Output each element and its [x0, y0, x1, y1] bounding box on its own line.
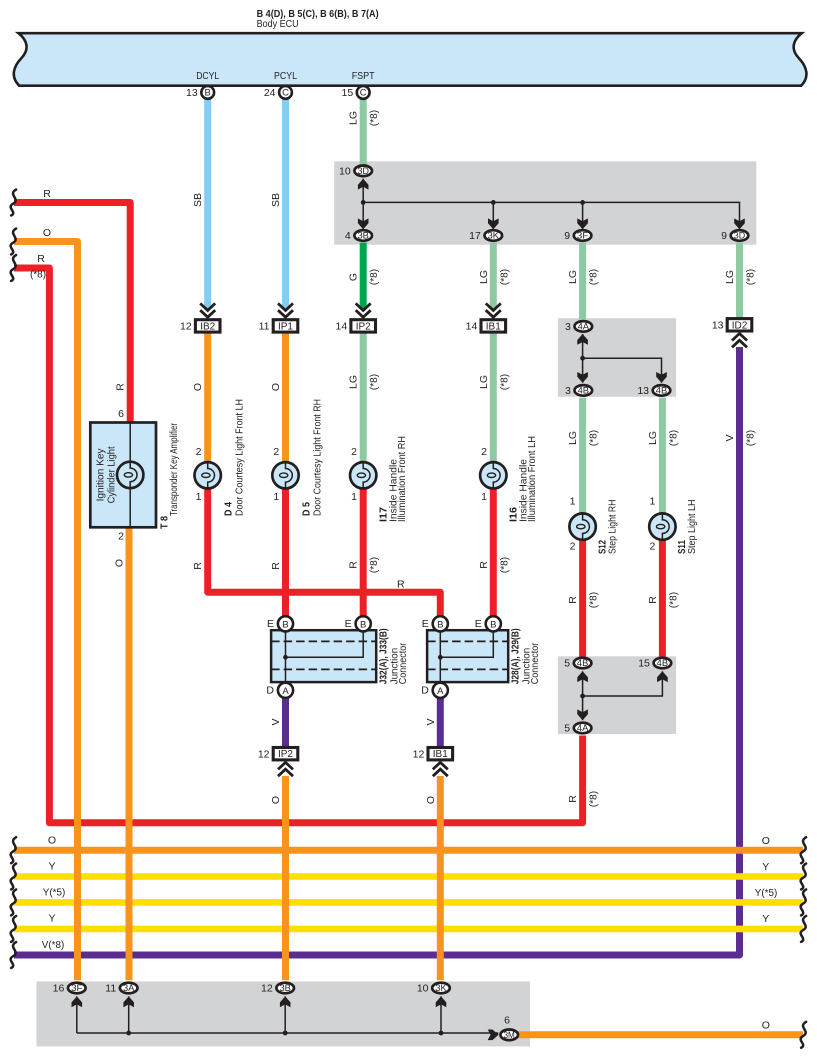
- wire G darkgreen: 4(3B) to IP2: [360, 243, 367, 309]
- wire LG green: IB1 to I16 pin2: [490, 333, 497, 463]
- arrow up into 16(3F): [72, 996, 83, 1007]
- svg-text:V(*8): V(*8): [42, 940, 65, 951]
- svg-text:LG: LG: [724, 270, 736, 284]
- svg-text:LG: LG: [478, 270, 490, 284]
- svg-text:V: V: [425, 718, 437, 725]
- J32 pin E(B) left: [267, 616, 293, 631]
- svg-text:10: 10: [339, 165, 351, 177]
- svg-text:3M: 3M: [504, 1030, 515, 1040]
- svg-text:ID2: ID2: [732, 320, 748, 331]
- connector 17(3K): [469, 230, 502, 242]
- svg-text:9: 9: [564, 230, 570, 242]
- lamp I16 Inside Handle Illumination Front LH: [480, 462, 506, 488]
- connector 5(4B): [564, 658, 591, 670]
- svg-text:3B: 3B: [280, 983, 292, 993]
- svg-text:Step Light RH: Step Light RH: [606, 500, 618, 555]
- svg-text:E: E: [345, 618, 352, 630]
- T8 internal bulb: ignition key cylinder light: [117, 462, 143, 488]
- wire O orange: IB1 down to 10(3K): [437, 776, 444, 980]
- svg-text:O: O: [762, 835, 770, 847]
- lamp I17 Inside Handle Illumination Front RH: [350, 462, 376, 488]
- svg-text:IB1: IB1: [486, 321, 501, 332]
- svg-text:2: 2: [118, 531, 124, 543]
- svg-text:Y: Y: [48, 861, 55, 873]
- svg-text:G: G: [348, 273, 360, 281]
- svg-text:12: 12: [258, 748, 270, 760]
- connector 12 IB1 lower: [413, 748, 453, 761]
- svg-text:(*8): (*8): [668, 430, 679, 446]
- svg-text:14: 14: [336, 321, 348, 333]
- J28 pin E(B) right: [475, 616, 501, 631]
- lamp S12 Step Light RH: [569, 513, 595, 539]
- wire O orange: left break down to 16(3F): [14, 242, 78, 981]
- svg-text:R: R: [270, 562, 282, 570]
- junction connector J28(A),J29(B) box: [427, 630, 508, 682]
- svg-text:1: 1: [570, 496, 576, 508]
- break symbol Y bus left: [11, 864, 16, 890]
- svg-text:Y: Y: [762, 913, 769, 925]
- arrow down into 9(3F): [577, 218, 588, 229]
- svg-text:O: O: [43, 227, 51, 239]
- chevron into IB1 lower: [433, 762, 448, 776]
- arrow down into 4(3B): [358, 218, 369, 229]
- svg-text:5: 5: [564, 658, 570, 670]
- svg-text:B: B: [282, 619, 288, 630]
- svg-text:5: 5: [564, 723, 570, 735]
- svg-text:R: R: [348, 561, 360, 569]
- svg-text:D: D: [266, 685, 274, 697]
- chevron into IB2: [200, 303, 215, 317]
- svg-text:Ignition Key: Ignition Key: [95, 448, 106, 501]
- svg-text:B: B: [205, 88, 211, 99]
- svg-text:C: C: [282, 88, 289, 99]
- chevron into IP2 lower: [278, 762, 293, 776]
- connector 10(3D): [339, 165, 372, 177]
- svg-text:1: 1: [481, 491, 487, 503]
- chevron into IB1: [486, 303, 501, 317]
- svg-text:3D: 3D: [358, 166, 369, 176]
- svg-text:Door Courtesy Light Front LH: Door Courtesy Light Front LH: [234, 399, 246, 516]
- break symbol R left: [11, 190, 16, 216]
- svg-text:R: R: [478, 561, 490, 569]
- wire O orange: T8 pin2 down to 11(3A): [126, 527, 133, 980]
- svg-text:(*8): (*8): [369, 269, 380, 285]
- svg-text:3: 3: [565, 321, 571, 333]
- connector 12 IP2 lower: [258, 748, 298, 761]
- svg-text:LG: LG: [478, 375, 490, 389]
- Body ECU band: [14, 33, 807, 85]
- svg-text:LG: LG: [348, 375, 360, 389]
- svg-text:V: V: [270, 718, 282, 725]
- wire R red: left break to T8 pin 6: [14, 203, 130, 423]
- svg-text:O: O: [192, 383, 204, 391]
- wire SB skyblue: DCYL to IB2: [204, 99, 211, 309]
- svg-text:R: R: [192, 562, 204, 570]
- svg-text:Illumination Front RH: Illumination Front RH: [396, 436, 408, 522]
- connector 12 IB2: [180, 320, 220, 333]
- arrow up into 11(3A): [123, 996, 134, 1007]
- svg-text:2: 2: [570, 541, 576, 553]
- rail in top shield box: [363, 179, 739, 229]
- svg-text:(*8): (*8): [589, 592, 600, 608]
- break symbol Y bus 2 left: [11, 916, 16, 942]
- svg-text:3K: 3K: [488, 231, 500, 241]
- svg-text:LG: LG: [567, 431, 579, 445]
- svg-text:1: 1: [273, 491, 279, 503]
- svg-text:1: 1: [649, 496, 655, 508]
- lamp D5 Door Courtesy Light Front RH: [272, 462, 298, 488]
- svg-text:SB: SB: [270, 193, 282, 207]
- svg-text:E: E: [475, 618, 482, 630]
- svg-text:T 8: T 8: [159, 516, 171, 529]
- break symbol Y(*5) bus left: [11, 889, 16, 915]
- svg-text:Connector: Connector: [529, 642, 541, 684]
- break symbol O bus right: [801, 837, 806, 863]
- svg-text:(*8): (*8): [30, 270, 46, 281]
- lamp D4 Door Courtesy Light Front LH: [195, 462, 221, 488]
- svg-text:O: O: [425, 796, 437, 804]
- break symbol O bus left: [11, 837, 16, 863]
- svg-text:(*8): (*8): [589, 269, 600, 285]
- junction dots on top rail: [361, 200, 366, 205]
- wire R red: D4 pin1 to J28 E(B): [208, 488, 441, 615]
- svg-text:LG: LG: [647, 431, 659, 445]
- svg-text:11: 11: [105, 983, 116, 995]
- svg-text:O: O: [762, 1020, 770, 1032]
- svg-text:E: E: [422, 618, 429, 630]
- svg-text:DCYL: DCYL: [196, 71, 219, 82]
- connector 10(3K): [417, 983, 450, 995]
- svg-text:3D: 3D: [734, 231, 745, 241]
- wire LG green: FSPT to 10(3D): [360, 99, 367, 164]
- svg-text:R: R: [397, 579, 405, 591]
- bus Y yellow 1: [14, 873, 803, 880]
- svg-text:3K: 3K: [435, 983, 447, 993]
- arrow up into 10(3D): [358, 179, 369, 190]
- svg-text:3F: 3F: [577, 231, 589, 241]
- wire SB skyblue: PCYL to IP1: [282, 99, 289, 309]
- svg-text:D: D: [421, 685, 429, 697]
- bus Y yellow 2: [14, 926, 803, 933]
- connector 15(4B): [638, 658, 671, 670]
- connector 11(3A): [105, 983, 137, 995]
- svg-text:4B: 4B: [657, 658, 669, 668]
- svg-text:24: 24: [264, 87, 276, 99]
- svg-text:B: B: [437, 619, 443, 630]
- svg-text:1: 1: [351, 491, 357, 503]
- svg-text:2: 2: [351, 446, 357, 458]
- pin 13(B) DCYL: [186, 86, 214, 99]
- arrow up into 12(3B): [280, 996, 291, 1007]
- wire V violet: ID2 down to V(*8) bus: [14, 347, 740, 955]
- wire O orange: 3M to right break: [518, 1031, 804, 1038]
- svg-text:13: 13: [712, 319, 724, 331]
- svg-text:IB2: IB2: [200, 321, 215, 332]
- svg-text:IP1: IP1: [278, 321, 293, 332]
- svg-text:FSPT: FSPT: [352, 71, 375, 82]
- svg-text:B: B: [360, 619, 366, 630]
- svg-text:2: 2: [273, 446, 279, 458]
- svg-text:Illumination Front LH: Illumination Front LH: [526, 436, 538, 522]
- wire R(*8) red: left break via bottom rail up to 5(4A): [14, 268, 583, 823]
- connector 3(4B): [565, 385, 592, 397]
- connector 16(3F): [53, 983, 86, 995]
- svg-text:Connector: Connector: [397, 642, 409, 684]
- svg-text:13: 13: [637, 385, 649, 397]
- wire LG green: 17(3K) to IB1: [490, 243, 497, 309]
- arrow down into 17(3K): [488, 218, 499, 229]
- wire R(*8) red: I16 pin1 to J28 E(B) right: [490, 488, 497, 615]
- svg-text:V: V: [724, 434, 736, 441]
- svg-text:1: 1: [196, 491, 202, 503]
- svg-text:12: 12: [261, 983, 273, 995]
- arrow right into 6(3M): [488, 1030, 499, 1041]
- svg-text:(*8): (*8): [589, 430, 600, 446]
- svg-text:R: R: [37, 253, 45, 265]
- svg-text:14: 14: [466, 321, 478, 333]
- connector 13 ID2: [712, 319, 752, 332]
- svg-text:R: R: [43, 188, 51, 200]
- connector 9(3D): [721, 230, 748, 242]
- break symbol O 3M right: [801, 1022, 806, 1048]
- svg-text:4: 4: [345, 230, 351, 242]
- connector 11 IP1: [259, 320, 298, 333]
- break symbol Y bus 2 right: [801, 916, 806, 942]
- svg-text:LG: LG: [348, 111, 360, 125]
- svg-text:(*8): (*8): [499, 269, 510, 285]
- arrow up into 10(3K): [436, 996, 447, 1007]
- connector 14 IP2: [336, 320, 376, 333]
- svg-text:3: 3: [565, 385, 571, 397]
- svg-text:R: R: [567, 596, 579, 604]
- svg-text:3B: 3B: [358, 231, 370, 241]
- pin 15(C) FSPT: [342, 86, 370, 99]
- component T8 Transponder Key Amplifier box: [90, 423, 156, 528]
- svg-text:O: O: [270, 383, 282, 391]
- wire V violet: J32 D(A) to IP2: [282, 699, 289, 747]
- svg-text:2: 2: [481, 446, 487, 458]
- svg-text:Y: Y: [762, 861, 769, 873]
- svg-text:(*8): (*8): [746, 269, 757, 285]
- svg-text:Y(*5): Y(*5): [43, 888, 66, 899]
- svg-text:R: R: [115, 383, 127, 391]
- svg-text:SB: SB: [192, 193, 204, 207]
- svg-text:6: 6: [118, 408, 124, 420]
- svg-text:Body ECU: Body ECU: [257, 19, 299, 30]
- wire V violet: J28 D(A) to IB1: [437, 699, 444, 747]
- wire O orange: IB2 to D4 pin2: [204, 333, 211, 463]
- svg-text:IP2: IP2: [278, 749, 293, 760]
- svg-text:O: O: [270, 796, 282, 804]
- svg-text:2: 2: [649, 541, 655, 553]
- svg-text:4A: 4A: [578, 322, 590, 332]
- wire LG green: 13(4B) to S11 pin1: [659, 398, 666, 514]
- svg-text:9: 9: [721, 230, 727, 242]
- svg-text:R: R: [567, 795, 579, 803]
- arrow up into 5(4B): [577, 671, 588, 682]
- J28 pin D(A): [421, 683, 448, 698]
- svg-text:11: 11: [259, 321, 270, 333]
- lamp S11 Step Light LH: [649, 513, 675, 539]
- svg-text:Y(*5): Y(*5): [755, 888, 778, 899]
- shield box: 4A/4B junction rail upper: [558, 318, 676, 397]
- junction connector J32(A),J33(B) box: [271, 630, 376, 682]
- svg-text:A: A: [282, 686, 289, 697]
- connector 4(3B): [345, 230, 372, 242]
- svg-text:Door Courtesy Light Front RH: Door Courtesy Light Front RH: [312, 399, 324, 516]
- connector 6(3M): [500, 1030, 518, 1041]
- svg-text:(*8): (*8): [668, 592, 679, 608]
- svg-text:3F: 3F: [71, 983, 83, 993]
- wire R(*8) red: I17 pin1 to J32 E(B) right: [360, 488, 367, 615]
- svg-text:12: 12: [413, 748, 425, 760]
- svg-text:A: A: [437, 686, 444, 697]
- svg-text:15: 15: [342, 87, 354, 99]
- wire R(*8) red: S12 pin2 to 5(4B): [579, 540, 586, 657]
- arrow down into 5(4A): [577, 709, 588, 720]
- arrow down into 13(4B): [656, 372, 667, 383]
- break symbol V bus left: [11, 942, 16, 968]
- svg-text:LG: LG: [567, 270, 579, 284]
- svg-text:O: O: [48, 835, 56, 847]
- wire O orange: IP2 down to 12(3B): [282, 776, 289, 980]
- wire LG green: IP2 to I17 pin2: [360, 333, 367, 463]
- svg-text:B: B: [490, 619, 496, 630]
- bus Y(*5) yellow: [14, 899, 803, 906]
- svg-text:O: O: [114, 559, 126, 567]
- svg-text:4B: 4B: [577, 658, 589, 668]
- connector 9(3F): [564, 230, 591, 242]
- svg-text:13: 13: [186, 87, 198, 99]
- wire LG green: 9(3D) to ID2: [736, 243, 743, 318]
- arrow down into 9(3D): [734, 218, 745, 229]
- bus O orange: [14, 847, 803, 854]
- connector 13(4B): [637, 385, 670, 397]
- svg-text:(*8): (*8): [369, 374, 380, 390]
- J32 pin D(A): [266, 683, 293, 698]
- svg-text:Step Light LH: Step Light LH: [686, 500, 698, 555]
- svg-text:4B: 4B: [656, 386, 668, 396]
- svg-text:PCYL: PCYL: [274, 71, 297, 82]
- svg-text:10: 10: [417, 983, 429, 995]
- shield box: top junction rail: [334, 161, 756, 244]
- wire O orange: IP1 to D5 pin2: [282, 333, 289, 463]
- svg-text:17: 17: [469, 230, 481, 242]
- connector 14 IB1: [466, 320, 506, 333]
- svg-text:(*8): (*8): [499, 557, 510, 573]
- arrow down into 3(4B): [577, 372, 588, 383]
- svg-text:IB1: IB1: [433, 749, 448, 760]
- connector 5(4A): [564, 723, 591, 735]
- svg-text:12: 12: [180, 321, 192, 333]
- arrow up into 3(4A): [577, 334, 588, 345]
- svg-text:E: E: [267, 618, 274, 630]
- wire R(*8) red: S11 pin2 to 15(4B): [659, 540, 666, 657]
- svg-text:(*8): (*8): [589, 791, 600, 807]
- svg-text:(*8): (*8): [369, 110, 380, 126]
- wire LG green: 9(3F) to 3(4A): [579, 243, 586, 320]
- rail in lower 4B shield box: [583, 671, 663, 720]
- arrow up into 15(4B): [657, 671, 668, 682]
- svg-text:4B: 4B: [578, 386, 590, 396]
- rail in upper 4A shield box: [583, 334, 662, 383]
- break symbol Y(*5) bus right: [801, 889, 806, 915]
- chevron into ID2: [732, 334, 747, 348]
- connector 3(4A): [565, 321, 592, 333]
- pin 24(C) PCYL: [264, 86, 292, 99]
- svg-text:16: 16: [53, 983, 65, 995]
- svg-text:(*8): (*8): [369, 557, 380, 573]
- break symbol O left: [11, 229, 16, 255]
- svg-text:6: 6: [504, 1015, 510, 1027]
- connector 12(3B): [261, 983, 294, 995]
- svg-text:3A: 3A: [123, 983, 135, 993]
- svg-text:15: 15: [638, 658, 650, 670]
- svg-text:Cylinder Light: Cylinder Light: [107, 446, 118, 503]
- svg-text:(*8): (*8): [746, 430, 757, 446]
- svg-text:IP2: IP2: [356, 321, 371, 332]
- break symbol Y bus right: [801, 864, 806, 890]
- svg-text:4A: 4A: [577, 723, 589, 733]
- chevron into IP1: [278, 303, 293, 317]
- J32 pin E(B) right: [345, 616, 371, 631]
- svg-text:C: C: [360, 88, 367, 99]
- break symbol R(*8) left: [11, 255, 16, 281]
- chevron into IP2: [356, 303, 371, 317]
- svg-text:(*8): (*8): [499, 374, 510, 390]
- rail in bottom shield box: [77, 996, 498, 1034]
- wire R red: D5 pin1 to J32 E(B) left: [282, 488, 289, 615]
- J28 pin E(B) left: [422, 616, 448, 631]
- shield box: bottom ground rail: [37, 981, 531, 1046]
- svg-text:Transponder Key Amplifier: Transponder Key Amplifier: [168, 423, 180, 516]
- svg-text:Y: Y: [48, 913, 55, 925]
- svg-text:2: 2: [196, 446, 202, 458]
- shield box: 4B/4A junction rail lower: [558, 656, 676, 734]
- wire LG green: 3(4B) to S12 pin1: [579, 398, 586, 514]
- svg-text:R: R: [647, 596, 659, 604]
